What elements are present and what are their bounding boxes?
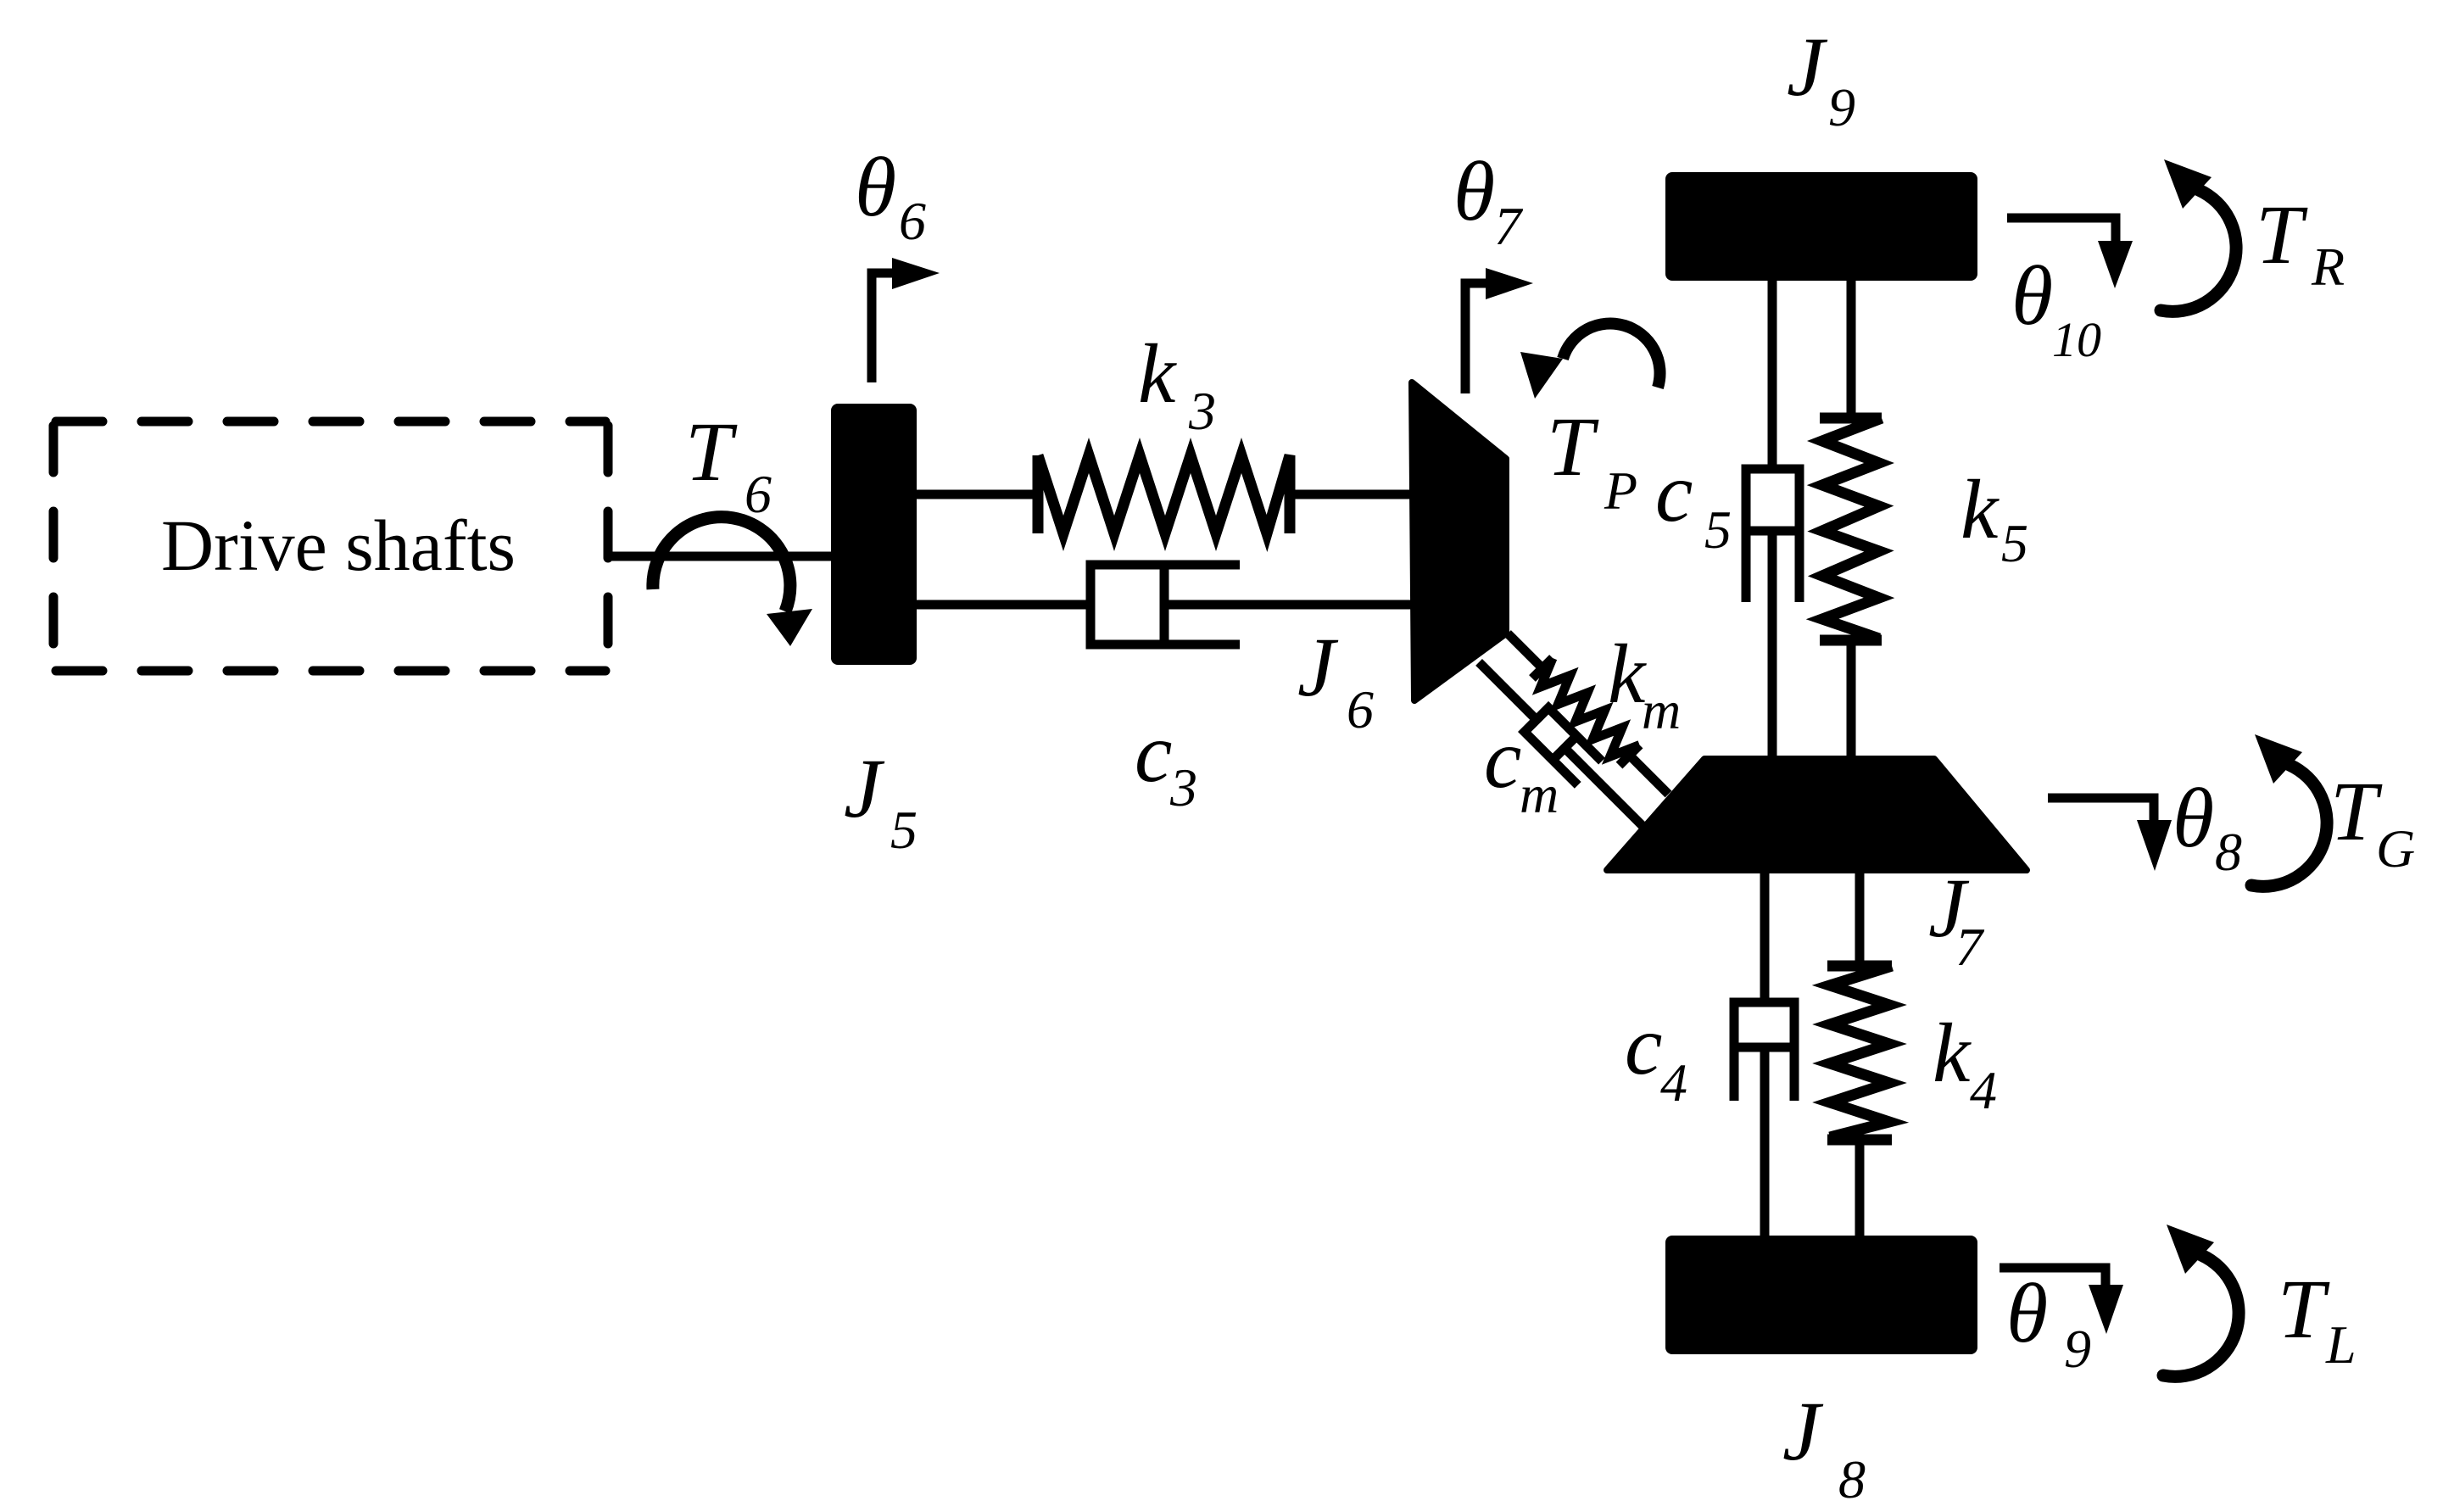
svg-text:m: m	[1520, 764, 1559, 824]
svg-text:θ: θ	[2006, 1266, 2048, 1360]
TP arrowhead	[1520, 352, 1563, 399]
TR arrowhead	[2164, 159, 2212, 209]
damper cm piston	[1553, 736, 1576, 760]
svg-text:7: 7	[1494, 196, 1524, 256]
svg-text:k: k	[1138, 326, 1177, 421]
svg-text:10: 10	[2052, 312, 2101, 367]
svg-text:c: c	[1484, 711, 1521, 806]
svg-text:L: L	[2325, 1314, 2357, 1375]
torque arc TP	[1563, 323, 1660, 388]
theta7 datum arrow	[1465, 283, 1486, 393]
svg-text:8: 8	[1838, 1449, 1866, 1509]
svg-text:4: 4	[1660, 1052, 1687, 1113]
theta8 datum arrow	[2048, 798, 2154, 820]
svg-text:6: 6	[899, 191, 926, 251]
inertia J9 mass	[1665, 172, 1977, 281]
TG arrowhead	[2255, 734, 2302, 784]
torque arc TR	[2161, 190, 2236, 311]
wire J7 to damper c4	[1760, 870, 1770, 1002]
wire spring k4 to J8	[1855, 1140, 1865, 1236]
svg-text:7: 7	[1955, 917, 1985, 977]
svg-text:5: 5	[1704, 499, 1732, 560]
spring k5	[1820, 418, 1882, 640]
inertia J8 mass	[1665, 1236, 1977, 1354]
svg-text:3: 3	[1188, 381, 1216, 441]
damper c5 piston	[1746, 527, 1799, 536]
svg-text:J: J	[1787, 20, 1828, 114]
svg-text:Drive shafts: Drive shafts	[161, 505, 516, 586]
damper cm cylinder	[1525, 708, 1602, 785]
diagonal gear-mesh pair km cm	[1467, 623, 1688, 845]
svg-text:T: T	[2330, 764, 2383, 858]
wire spring k5 to J7	[1847, 640, 1856, 759]
svg-text:c: c	[1135, 706, 1172, 800]
theta8 arrowhead	[2137, 820, 2172, 871]
svg-text:T: T	[2278, 1262, 2330, 1356]
svg-text:c: c	[1625, 998, 1662, 1092]
svg-text:J: J	[1297, 620, 1339, 714]
gear J7	[1607, 759, 2027, 870]
svg-text:θ: θ	[2172, 771, 2214, 865]
svg-text:R: R	[2311, 237, 2345, 297]
theta9 datum arrow	[2000, 1268, 2106, 1285]
spring km	[1532, 658, 1640, 766]
pinion J6	[1412, 382, 1506, 700]
damper cm piston rod to J7	[1565, 748, 1649, 833]
wire J9 to damper c5	[1768, 281, 1777, 465]
damper c4 cylinder	[1734, 1002, 1794, 1101]
spring k3 lead wire left	[917, 490, 1038, 499]
torque arc TL	[2163, 1255, 2239, 1376]
wire J9 to spring k5	[1847, 281, 1856, 418]
svg-text:J: J	[844, 741, 885, 835]
spring km lead rod to J7	[1630, 756, 1669, 795]
svg-text:T: T	[685, 405, 738, 499]
svg-text:k: k	[1933, 1006, 1972, 1100]
damper c3 piston	[1160, 565, 1169, 644]
svg-text:c: c	[1655, 445, 1693, 539]
svg-text:θ: θ	[1453, 144, 1495, 238]
drive shafts dashed box	[56, 417, 605, 427]
theta10 arrowhead	[2098, 241, 2133, 288]
spring k3 lead wire right	[1290, 490, 1414, 499]
svg-text:k: k	[1961, 462, 2000, 556]
damper c5 rod to J7	[1768, 531, 1777, 759]
svg-text:8: 8	[2215, 822, 2242, 882]
theta6 datum arrow	[872, 273, 892, 382]
inertia J5 mass	[831, 404, 917, 665]
svg-text:P: P	[1604, 460, 1637, 521]
damper c3 piston rod	[1164, 600, 1414, 610]
svg-text:6: 6	[1347, 679, 1374, 739]
theta9 arrowhead	[2089, 1285, 2123, 1334]
svg-text:m: m	[1642, 680, 1681, 740]
svg-text:θ: θ	[2011, 248, 2053, 343]
torque arc TG	[2251, 765, 2327, 886]
wire from drive shafts to J5	[605, 552, 831, 561]
svg-text:T: T	[1547, 399, 1599, 494]
wire J7 to spring k4	[1855, 870, 1865, 966]
svg-text:J: J	[1782, 1384, 1824, 1478]
theta6 arrowhead	[892, 258, 940, 289]
svg-text:6: 6	[745, 464, 772, 524]
spring k3	[1038, 455, 1290, 533]
spring k4	[1827, 966, 1892, 1140]
damper c4 rod to J8	[1760, 1047, 1770, 1236]
svg-text:T: T	[2256, 187, 2308, 282]
theta7 arrowhead	[1486, 268, 1533, 299]
damper c5 cylinder	[1746, 469, 1799, 602]
damper cm rod	[1479, 662, 1537, 720]
torque arc T6	[653, 517, 790, 611]
svg-text:G: G	[2376, 818, 2415, 879]
svg-text:5: 5	[890, 800, 918, 860]
svg-text:3: 3	[1169, 757, 1197, 817]
svg-text:9: 9	[1828, 77, 1855, 137]
spring km lead rod	[1508, 633, 1542, 668]
damper c3 cylinder	[1090, 565, 1240, 644]
TL arrowhead	[2167, 1225, 2214, 1274]
damper c3 lead wire left	[917, 600, 1090, 610]
theta10 datum arrow	[2007, 218, 2116, 242]
damper c4 piston	[1734, 1043, 1794, 1052]
svg-text:5: 5	[2001, 513, 2028, 573]
svg-text:9: 9	[2064, 1319, 2091, 1379]
svg-text:θ: θ	[855, 140, 896, 234]
T6 arrowhead	[767, 609, 812, 646]
svg-text:4: 4	[1970, 1060, 1997, 1120]
